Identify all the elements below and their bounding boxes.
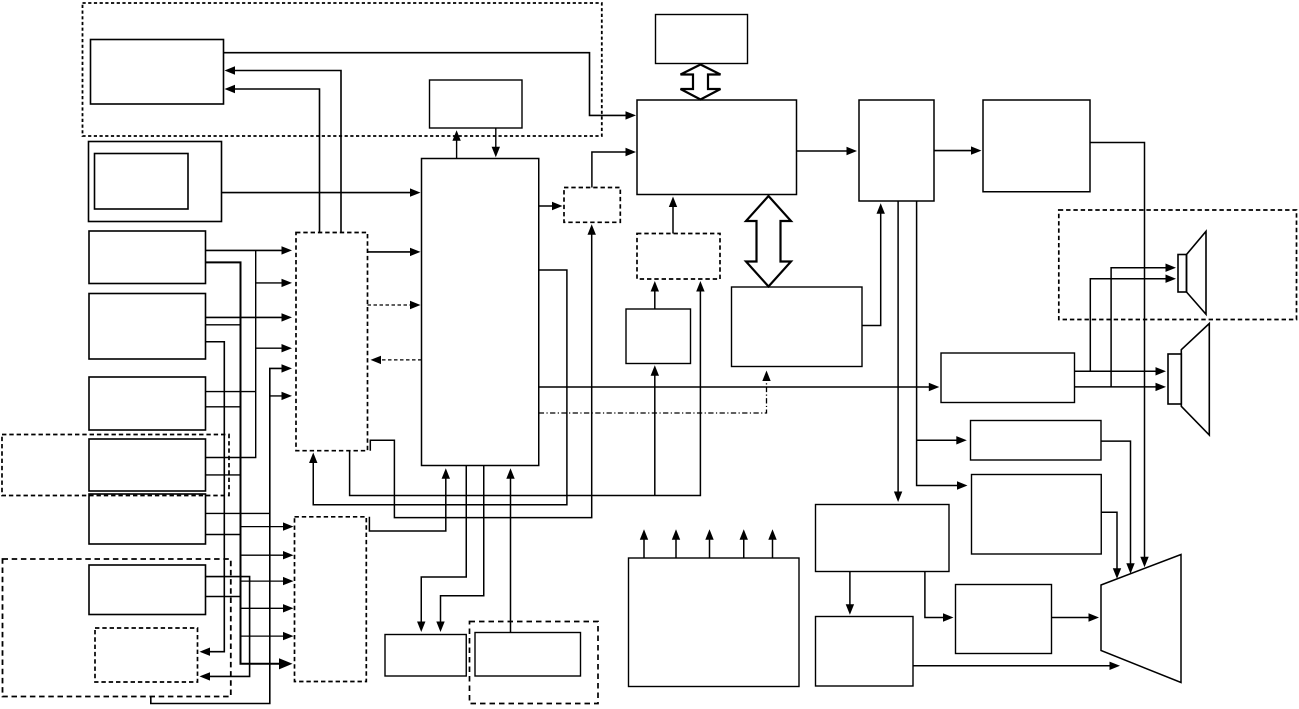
DSP output arrow 2: [672, 529, 680, 558]
bus240 arrow to D3 3: [241, 577, 294, 585]
wire D2 to B1 (upper): [225, 66, 342, 232]
wire branch up to SPK1 lower: [1090, 275, 1176, 372]
wire BX21 out arrow: [913, 662, 1120, 670]
stub B5 to bus255: [206, 391, 256, 393]
box U11 (audio processor): [637, 100, 797, 195]
dashed group box D1 (tuner section): [83, 3, 602, 136]
wire B2 to CPU: [222, 188, 421, 196]
bus240 arrow to D3 4: [241, 604, 294, 612]
box DAC: [626, 309, 691, 364]
wire BX20 to BX3: [925, 572, 954, 622]
stub B7 to bus270: [206, 512, 270, 514]
wire DAC top to D5: [651, 281, 659, 309]
dashed group box D7: [3, 559, 231, 697]
wire branch up to SPK1 upper: [1111, 264, 1176, 387]
dashed group box D9: [470, 622, 599, 704]
bus240 arrow to D3 5: [241, 632, 294, 640]
wire U13 to U14: [934, 146, 982, 154]
box B2 outer (display): [89, 142, 222, 222]
stub B6 to bus240: [206, 474, 241, 476]
box EQ: [971, 421, 1102, 461]
wire DRAM to U13: [862, 203, 885, 325]
dashed group box D6: [2, 435, 229, 496]
box B7 (input source 5): [89, 494, 206, 544]
double arrow U11-DRAM: [746, 196, 791, 287]
dashed small box D4: [564, 188, 620, 223]
dashed selector box D2: [296, 233, 368, 451]
bus 240 main B3 to D3 thick arrow: [206, 262, 293, 669]
speaker SPK1 driver rect: [1178, 255, 1187, 293]
speaker SPK1 horn: [1187, 231, 1207, 314]
DSP output arrow 1: [640, 529, 648, 558]
box B8 (input source 6): [89, 565, 206, 615]
wire SD down to CPU: [492, 128, 500, 157]
box B6 (input source 4): [89, 439, 206, 491]
wire AMP out1 to SPK2: [1075, 367, 1167, 375]
wire B1 output to U11: [224, 53, 637, 120]
wire CPU to D4: [539, 202, 563, 210]
wire BX20 down to BX21: [846, 572, 854, 615]
wire dash-dot CPU to DRAM: [539, 371, 771, 414]
bus 249 B8 to B9 arrow: [200, 577, 250, 681]
box SD (memory, top): [430, 80, 523, 128]
wire D2 to CPU dashed: [368, 301, 421, 309]
dashed speaker box D10: [1059, 210, 1297, 320]
box BX20: [816, 505, 950, 572]
wire C selector D2 to D4: [370, 224, 596, 517]
box BX2: [972, 475, 1102, 555]
DSP output arrow 3: [705, 529, 713, 558]
wire D5 top to U11: [669, 197, 677, 234]
wire CPU to BL 1: [417, 466, 466, 633]
stub B4 to bus240: [206, 324, 241, 326]
bus 255 arrow to D2 a: [256, 279, 292, 287]
box CPU (central processor): [422, 159, 539, 466]
box BX21: [816, 617, 914, 687]
box BX3: [956, 585, 1052, 654]
box AMP: [941, 353, 1075, 403]
bus 255 B3 branch to B6: [206, 250, 256, 457]
box DRAM: [732, 287, 863, 367]
wire U13 down to BX2: [917, 201, 968, 490]
wire B4 to D2 arrow: [206, 313, 293, 321]
wire U11 to U13: [797, 147, 858, 155]
wire EQ out to trapezoid: [1101, 441, 1135, 574]
box U12 (top small): [656, 15, 748, 64]
wire CPU to D2 dashed: [371, 356, 422, 364]
box BL (bottom left small): [385, 635, 466, 677]
wire E D3 to CPU bottom arrow: [369, 468, 450, 531]
speaker SPK2 horn: [1181, 324, 1209, 436]
wire D2 to B1 (lower): [225, 85, 320, 233]
box B2 inner screen: [95, 154, 189, 210]
wire D4 top to U11: [592, 148, 636, 188]
wire BX3 to trapezoid: [1052, 613, 1100, 621]
bus240 arrow to D3 1: [241, 522, 294, 530]
box B1 (antenna tuner): [91, 40, 224, 105]
bus 224 B4 to B9 arrow: [200, 342, 225, 656]
wire D2 to CPU: [368, 248, 421, 256]
wire CPU top to SD: [452, 130, 460, 158]
DSP output arrow 5: [768, 529, 776, 558]
wire B3 to D2 arrow: [206, 246, 293, 254]
trapezoid output stage: [1101, 555, 1181, 683]
box B5 (input source 3): [89, 377, 206, 430]
box BR (bottom right small): [475, 633, 581, 677]
box B3 (input source 1): [89, 231, 206, 284]
wire CPU long to AMP: [539, 383, 940, 391]
wire A selector D2 to DAC and D5: [350, 281, 705, 496]
wire CPU to BL 2: [436, 466, 483, 633]
double arrow U12-U11: [681, 65, 721, 100]
wire U13 down to BX20: [894, 201, 902, 502]
wire U14 out to trapezoid: [1090, 143, 1149, 568]
box DSP (bottom center): [629, 558, 800, 687]
wire A branch up to DAC: [651, 365, 659, 495]
box U14: [983, 100, 1090, 192]
wire BR up to CPU: [506, 468, 514, 632]
stub B8 to bus240: [206, 596, 241, 598]
box B4 (input source 2): [89, 294, 206, 360]
stub B7 to bus240: [206, 534, 241, 536]
dashed small box D5: [637, 234, 720, 280]
stub B5 to bus240: [206, 406, 241, 408]
wire AMP out2 to SPK2: [1075, 383, 1167, 391]
dashed box B9 (inside D7): [95, 628, 198, 682]
bus 255 arrow to D2 b: [256, 344, 292, 352]
bus 270 D7 to D2 arrow: [151, 364, 292, 703]
DSP output arrow 4: [740, 529, 748, 558]
wire branch to EQ: [917, 436, 967, 444]
box U13: [859, 100, 934, 201]
bus270 arrow to D2: [270, 392, 292, 400]
wire CPU right to D2 bottom arrow: [309, 270, 567, 505]
bus240 arrow to D3 2: [241, 551, 294, 559]
dashed selector box D3: [295, 517, 367, 682]
speaker SPK2 driver rect: [1168, 354, 1181, 404]
wire BX2 out to trapezoid: [1101, 512, 1121, 579]
